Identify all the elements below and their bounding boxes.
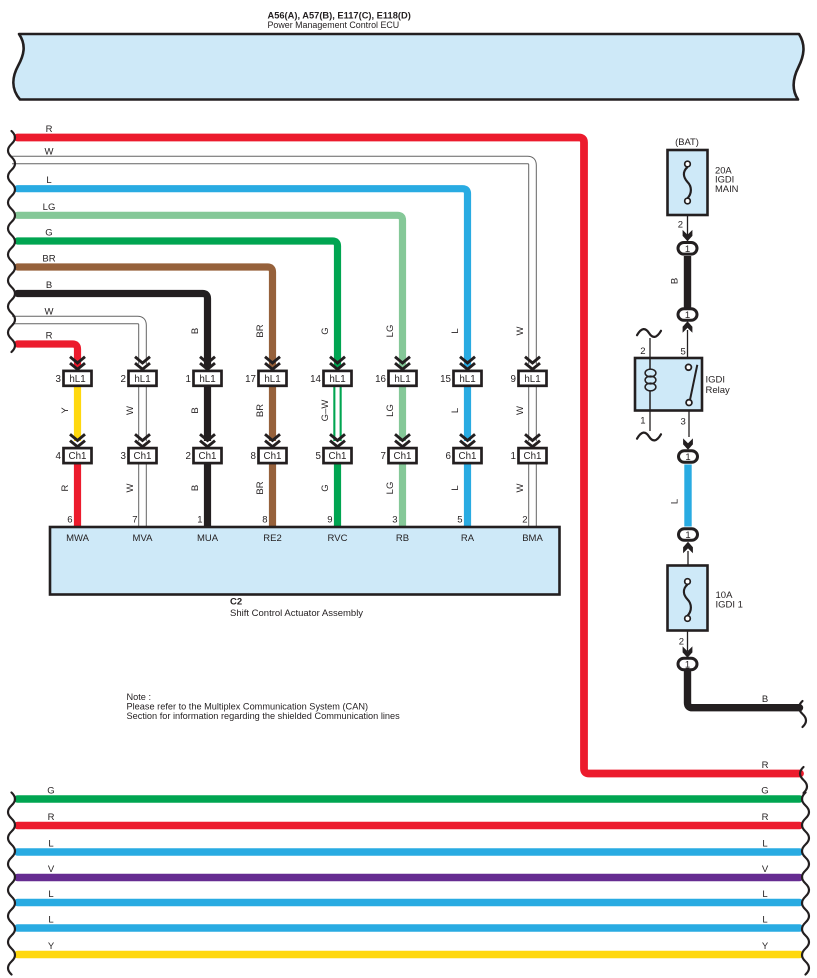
svg-text:R: R [60, 484, 71, 491]
svg-text:IGDI 1: IGDI 1 [716, 600, 743, 611]
svg-text:14: 14 [310, 374, 321, 385]
svg-text:3: 3 [681, 417, 686, 428]
svg-text:5: 5 [457, 515, 462, 526]
svg-text:C2: C2 [230, 597, 242, 608]
svg-text:5: 5 [316, 451, 322, 462]
svg-text:MVA: MVA [133, 533, 154, 544]
svg-text:R: R [48, 812, 55, 823]
svg-text:MUA: MUA [197, 533, 219, 544]
svg-text:LG: LG [385, 404, 396, 417]
svg-text:hL1: hL1 [264, 374, 280, 385]
svg-text:R: R [762, 760, 769, 771]
svg-text:9: 9 [511, 374, 516, 385]
svg-text:3: 3 [121, 451, 127, 462]
svg-text:9: 9 [327, 515, 332, 526]
svg-text:BR: BR [42, 254, 55, 265]
svg-text:1: 1 [197, 515, 202, 526]
svg-text:L: L [48, 839, 53, 850]
svg-text:hL1: hL1 [69, 374, 85, 385]
svg-text:V: V [762, 864, 769, 875]
svg-text:6: 6 [67, 515, 72, 526]
svg-text:G: G [761, 786, 768, 797]
svg-text:B: B [190, 485, 201, 491]
svg-text:hL1: hL1 [524, 374, 540, 385]
svg-text:W: W [515, 406, 526, 415]
svg-text:BR: BR [255, 481, 266, 494]
svg-text:hL1: hL1 [199, 374, 215, 385]
svg-text:8: 8 [262, 515, 267, 526]
svg-text:LG: LG [43, 202, 56, 213]
svg-text:L: L [450, 408, 461, 413]
svg-text:Ch1: Ch1 [69, 451, 87, 462]
svg-text:L: L [48, 889, 53, 900]
svg-text:3: 3 [392, 515, 397, 526]
svg-text:Ch1: Ch1 [329, 451, 347, 462]
svg-text:hL1: hL1 [329, 374, 345, 385]
svg-text:BMA: BMA [522, 533, 543, 544]
svg-text:B: B [190, 328, 201, 334]
svg-text:2: 2 [186, 451, 191, 462]
svg-text:8: 8 [251, 451, 257, 462]
svg-text:G: G [320, 484, 331, 491]
svg-text:Ch1: Ch1 [264, 451, 282, 462]
svg-text:W: W [45, 147, 54, 158]
svg-text:G–W: G–W [320, 400, 331, 422]
svg-text:LG: LG [385, 325, 396, 338]
svg-text:17: 17 [245, 374, 256, 385]
svg-text:hL1: hL1 [459, 374, 475, 385]
svg-text:BR: BR [255, 404, 266, 417]
svg-text:Y: Y [60, 407, 71, 414]
svg-text:G: G [45, 228, 52, 239]
svg-text:LG: LG [385, 482, 396, 495]
svg-text:W: W [45, 307, 54, 318]
svg-text:R: R [46, 124, 53, 135]
svg-text:Section for information regard: Section for information regarding the sh… [127, 711, 401, 721]
svg-text:Relay: Relay [706, 385, 731, 396]
svg-text:7: 7 [132, 515, 137, 526]
svg-text:Power Management Control ECU: Power Management Control ECU [268, 20, 400, 30]
svg-text:L: L [670, 499, 681, 504]
svg-text:2: 2 [522, 515, 527, 526]
svg-text:MWA: MWA [66, 533, 90, 544]
svg-text:L: L [762, 889, 767, 900]
svg-text:Shift Control Actuator Assembl: Shift Control Actuator Assembly [230, 608, 363, 619]
svg-text:B: B [46, 280, 52, 291]
svg-text:Ch1: Ch1 [524, 451, 542, 462]
svg-text:2: 2 [640, 346, 645, 357]
svg-text:G: G [320, 327, 331, 334]
svg-text:IGDI: IGDI [706, 374, 726, 385]
svg-text:L: L [450, 485, 461, 490]
svg-text:1: 1 [186, 374, 191, 385]
svg-text:16: 16 [375, 374, 386, 385]
svg-text:15: 15 [440, 374, 451, 385]
svg-text:B: B [190, 407, 201, 413]
svg-text:L: L [762, 839, 767, 850]
svg-text:2: 2 [679, 637, 684, 648]
svg-text:Please refer to the Multiplex: Please refer to the Multiplex Communicat… [127, 702, 369, 712]
svg-text:Ch1: Ch1 [394, 451, 412, 462]
svg-text:V: V [48, 864, 55, 875]
svg-text:W: W [125, 406, 136, 415]
svg-text:2: 2 [121, 374, 126, 385]
svg-text:RE2: RE2 [263, 533, 281, 544]
svg-text:RA: RA [461, 533, 475, 544]
svg-text:A56(A), A57(B), E117(C), E118(: A56(A), A57(B), E117(C), E118(D) [268, 10, 411, 20]
svg-text:4: 4 [56, 451, 62, 462]
svg-text:W: W [125, 483, 136, 492]
svg-text:5: 5 [681, 346, 686, 357]
svg-text:L: L [450, 328, 461, 333]
svg-text:MAIN: MAIN [715, 183, 738, 194]
svg-text:3: 3 [56, 374, 62, 385]
svg-text:W: W [515, 326, 526, 335]
svg-text:hL1: hL1 [134, 374, 150, 385]
svg-text:B: B [762, 694, 768, 705]
svg-text:R: R [762, 812, 769, 823]
svg-text:Ch1: Ch1 [199, 451, 217, 462]
svg-text:Note :: Note : [127, 692, 152, 702]
svg-text:G: G [47, 786, 54, 797]
svg-text:L: L [762, 915, 767, 926]
svg-text:1: 1 [511, 451, 516, 462]
svg-text:RVC: RVC [328, 533, 348, 544]
svg-text:L: L [48, 915, 53, 926]
svg-text:hL1: hL1 [394, 374, 410, 385]
svg-text:W: W [515, 483, 526, 492]
svg-text:2: 2 [678, 220, 683, 231]
svg-text:L: L [46, 175, 51, 186]
svg-text:Ch1: Ch1 [134, 451, 152, 462]
svg-text:R: R [46, 331, 53, 342]
svg-text:Y: Y [48, 941, 55, 952]
svg-text:6: 6 [446, 451, 452, 462]
svg-text:7: 7 [381, 451, 386, 462]
svg-text:Y: Y [762, 941, 769, 952]
svg-text:1: 1 [640, 415, 645, 426]
svg-text:Ch1: Ch1 [459, 451, 477, 462]
svg-text:B: B [670, 278, 681, 284]
svg-text:BR: BR [255, 324, 266, 337]
svg-text:(BAT): (BAT) [675, 136, 699, 147]
svg-text:RB: RB [396, 533, 409, 544]
